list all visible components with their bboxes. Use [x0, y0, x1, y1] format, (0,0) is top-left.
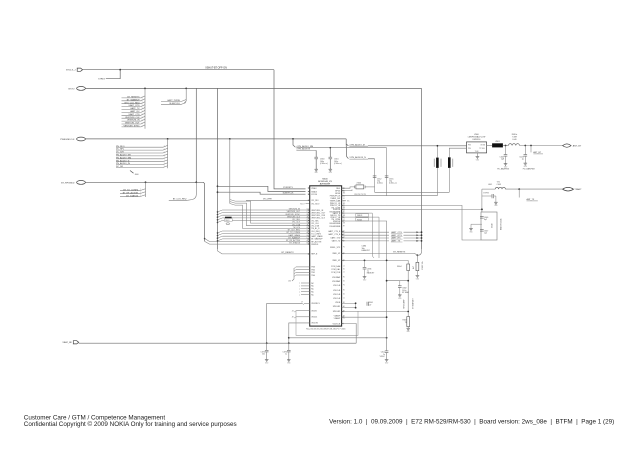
- svg-text:TM0: TM0: [311, 275, 315, 277]
- wire row3 corner down: [346, 139, 348, 146]
- svg-text:(C60x+x): (C60x+x): [389, 183, 397, 185]
- svg-text:XTRIG: XTRIG: [98, 78, 105, 80]
- svg-text:2: 2: [142, 117, 143, 119]
- inductor L641: [488, 182, 505, 190]
- capacitor C660: [314, 157, 328, 165]
- wire balun lineB: [342, 208, 481, 210]
- arrow J600 under stack: [130, 171, 139, 176]
- net label 4 PN_AUDIO_M: [349, 143, 368, 146]
- junction xmik cap: [364, 260, 366, 262]
- wire BT_RESETX row: [218, 249, 310, 254]
- capacitor C680 labels: [362, 246, 371, 252]
- wire staircase nets: [230, 200, 310, 229]
- crystal X600 (box): [356, 182, 364, 189]
- connector pin BTCLK_J (pentagon): [66, 68, 82, 72]
- junction c661: [330, 147, 332, 149]
- wire L640 right: [520, 145, 563, 147]
- wire Z600 pin2 left: [449, 148, 466, 157]
- wire row3 corner fan2: [346, 144, 348, 159]
- junction balun lineB: [481, 209, 483, 211]
- svg-text:L641: L641: [488, 184, 492, 186]
- wire XTRIG stub: [106, 70, 120, 79]
- ground C644: [494, 202, 498, 207]
- boxed label RXD5B: [356, 218, 369, 222]
- svg-text:DC_DR: DC_DR: [116, 166, 124, 168]
- net label 3 PN_AUDIOK_N: [349, 156, 368, 159]
- svg-text:(C60x): (C60x): [377, 183, 383, 185]
- wire VIC_RFE row: [246, 199, 310, 201]
- wire TXANT left vertical: [481, 189, 483, 209]
- svg-text:XMIK_4P: XMIK_4P: [332, 260, 341, 262]
- pin NC57 stub: [300, 203, 310, 205]
- wire row2 drop x421 (to BT section): [421, 88, 423, 249]
- wire X600 right: [365, 186, 375, 188]
- svg-text:RF_ACTIVE: RF_ACTIVE: [311, 240, 322, 243]
- filter B600 (black): [225, 217, 232, 218]
- wire VDD rail y337.8: [289, 337, 387, 339]
- svg-text:2: 2: [164, 146, 165, 148]
- resistor R602: [413, 255, 424, 270]
- wire L641 right: [505, 188, 562, 190]
- svg-text:M8: M8: [343, 215, 345, 217]
- svg-text:R602 10k: R602 10k: [422, 261, 424, 269]
- svg-text:D1: D1: [343, 294, 345, 296]
- pins NC stubs: [299, 283, 310, 297]
- junction txant: [518, 188, 520, 190]
- svg-text:BT EAR: BT EAR: [402, 291, 409, 294]
- svg-text:M5: M5: [343, 203, 345, 205]
- svg-text:VDDRAW: VDDRAW: [332, 276, 340, 279]
- bus collector row2 stack: [144, 88, 146, 128]
- filter Z600 (box): [467, 142, 487, 153]
- capacitor C641: [519, 146, 527, 164]
- capacitor C670: [282, 343, 290, 360]
- svg-text:SLEEPCLK: SLEEPCLK: [283, 193, 294, 195]
- wire TXANT row: [482, 188, 495, 190]
- svg-text:X640: X640: [492, 224, 494, 228]
- svg-text:VDDB: VDDB: [335, 302, 341, 304]
- svg-text:TP 3GL: TP 3GL: [479, 148, 485, 150]
- svg-text:2: 2: [140, 192, 141, 194]
- capacitor C644: [482, 194, 496, 202]
- rotated label SPKOUT: [412, 297, 415, 308]
- svg-text:BT_WAKEUP: BT_WAKEUP: [311, 238, 323, 241]
- wire cap282 lead: [399, 281, 401, 286]
- footer line1: [24, 415, 166, 422]
- svg-text:UART_WAKE: UART_WAKE: [288, 234, 300, 237]
- wire x293 drop: [293, 139, 295, 147]
- svg-text:UART_WAKE: UART_WAKE: [311, 235, 323, 238]
- svg-text:L1: L1: [343, 266, 345, 268]
- bus collector row4 stack: [145, 182, 147, 197]
- svg-text:3 PN_AUDIOK_N: 3 PN_AUDIOK_N: [349, 156, 366, 159]
- svg-text:4 PN_AUDIO_NM: 4 PN_AUDIO_NM: [296, 145, 313, 148]
- svg-text:SPKGN2: SPKGN2: [333, 311, 340, 313]
- svg-text:2: 2: [164, 157, 165, 159]
- bus collector uart-pwre: [184, 88, 186, 103]
- Z600 labels: [468, 134, 486, 141]
- svg-text:1p8: 1p8: [501, 159, 504, 161]
- svg-text:10n: 10n: [262, 354, 265, 356]
- svg-text:2: 2: [142, 108, 143, 110]
- ground R602: [416, 275, 420, 280]
- bus collector row3 stack: [167, 139, 169, 168]
- wire audio net2 to xtal area: [368, 159, 449, 193]
- svg-text:BT_TX_CONF4: BT_TX_CONF4: [123, 189, 139, 191]
- wire audio net to Z600: [368, 145, 467, 147]
- wire c661 gnd lead: [329, 159, 331, 169]
- svg-text:TM2: TM2: [311, 269, 315, 271]
- ground X640: [469, 229, 473, 234]
- svg-text:REF_N: REF_N: [311, 254, 318, 256]
- wire v421 curve join: [417, 249, 421, 255]
- svg-text:4k7: 4k7: [413, 266, 415, 269]
- net label SLEEPCLK at pin: [283, 193, 294, 195]
- pins TM3-TM0 with collector: [288, 267, 310, 283]
- connector BTXO (oval): [69, 87, 86, 91]
- svg-text:TM3: TM3: [311, 267, 315, 269]
- svg-text:XMIKL_STX: XMIKL_STX: [330, 247, 341, 249]
- svg-text:J1: J1: [343, 272, 345, 274]
- svg-text:VDDIO-B: VDDIO-B: [333, 323, 341, 325]
- wire row y217: [342, 217, 379, 258]
- IC N600 ref label: [318, 179, 332, 186]
- svg-text:H1: H1: [343, 277, 345, 279]
- svg-text:BT_RESETX: BT_RESETX: [127, 97, 140, 99]
- svg-text:x: x: [299, 291, 300, 293]
- svg-text:VENTURIL_SYN: VENTURIL_SYN: [311, 215, 326, 217]
- net stub ANT_TX: [519, 189, 538, 201]
- junction rail-cap: [386, 337, 388, 339]
- svg-text:2: 2: [142, 96, 143, 98]
- junction row3 x229: [229, 138, 231, 140]
- wire Z601 right: [503, 145, 509, 147]
- junction VDDON VBAT: [288, 342, 290, 344]
- svg-text:TXANT: TXANT: [574, 188, 582, 191]
- pin arrows left edge: [308, 187, 310, 255]
- svg-text:UART_CTS_B: UART_CTS_B: [328, 233, 341, 236]
- IC bottom NC note: [306, 328, 346, 330]
- pin NC stub right: [342, 201, 351, 203]
- svg-text:2: 2: [142, 111, 143, 113]
- svg-text:J8: J8: [292, 317, 294, 319]
- svg-text:VIC_DTA: VIC_DTA: [311, 225, 319, 228]
- svg-text:2: 2: [164, 154, 165, 156]
- svg-text:BTX_CLK_REQ: BTX_CLK_REQ: [125, 102, 140, 104]
- svg-text:VDDO-B: VDDO-B: [333, 290, 341, 292]
- svg-text:VIC_DTA: VIC_DTA: [292, 223, 301, 226]
- svg-text:E1: E1: [343, 290, 345, 292]
- svg-text:K1: K1: [343, 269, 345, 271]
- svg-text:2: 2: [164, 160, 165, 162]
- label TXANT: [574, 188, 582, 191]
- svg-text:LPO56: LPO56: [311, 194, 317, 196]
- svg-text:H7: H7: [343, 226, 345, 228]
- svg-text:2: 2: [142, 125, 143, 127]
- svg-text:J7: J7: [301, 302, 303, 304]
- footer line2: [24, 420, 237, 428]
- svg-text:NC57: NC57: [300, 203, 305, 205]
- svg-text:BALUN 2G45: BALUN 2G45: [500, 219, 503, 230]
- junction row3 x293: [292, 138, 294, 140]
- svg-text:STATUS: STATUS: [311, 243, 319, 246]
- wire Z600 gnd stub: [476, 153, 478, 157]
- svg-text:BT_WAKEUP: BT_WAKEUP: [288, 237, 300, 240]
- svg-text:DC_IDR: DC_IDR: [116, 152, 124, 154]
- svg-text:VENTURI_IN: VENTURI_IN: [127, 120, 140, 122]
- svg-text:(C60x+x): (C60x+x): [320, 163, 328, 165]
- svg-text:1p: 1p: [522, 159, 524, 161]
- ground C671: [385, 360, 389, 365]
- label stack PN_RFO..DC_DR: [116, 145, 168, 168]
- X600 sub label: [354, 194, 367, 196]
- net label SYSRSTX: [283, 187, 293, 189]
- svg-text:x: x: [299, 286, 300, 288]
- svg-text:BT/FM: BT/FM: [483, 193, 489, 195]
- svg-text:UART_TD: UART_TD: [332, 239, 341, 242]
- junction ant c: [530, 145, 532, 147]
- capacitor C642: [499, 146, 507, 164]
- svg-text:G1: G1: [343, 281, 345, 283]
- junction ant a: [505, 145, 507, 147]
- wire VDDIO tap: [292, 311, 310, 313]
- IC internal left pin names: [311, 187, 326, 325]
- wire XSHUT-BT row1 horizontal: [83, 69, 274, 71]
- svg-text:UART_TXD: UART_TXD: [330, 236, 340, 239]
- resistor R605: [402, 317, 409, 329]
- svg-text:VENTURI_SYNC: VENTURI_SYNC: [285, 214, 300, 216]
- ground C682: [398, 295, 402, 300]
- svg-text:SPK EARP: SPK EARP: [403, 299, 406, 309]
- junction a280b: [407, 280, 409, 282]
- balun L643 (bars): [448, 157, 453, 192]
- svg-text:2: 2: [142, 99, 143, 101]
- svg-text:8p2: 8p2: [484, 219, 487, 221]
- svg-text:C1: C1: [343, 298, 345, 300]
- bead oval under B600: [226, 223, 230, 225]
- svg-text:VENTURI_OUT: VENTURI_OUT: [125, 123, 140, 125]
- svg-text:1u: 1u: [285, 354, 287, 356]
- ground C670: [287, 360, 291, 365]
- svg-text:R604: R604: [397, 266, 402, 268]
- boxed label B600: [224, 219, 232, 222]
- svg-text:VDDC: VDDC: [380, 356, 386, 358]
- junction row4 bus: [145, 181, 147, 183]
- wire rows from bus into IC: [217, 210, 310, 242]
- net label 4 PN_AUDIO_NM: [296, 145, 386, 148]
- UART net labels group: [342, 231, 423, 243]
- svg-text:BT_RF_ACTIVE: BT_RF_ACTIVE: [286, 239, 301, 242]
- svg-text:VDDO-B: VDDO-B: [333, 294, 341, 296]
- svg-text:TUM: TUM: [475, 151, 479, 153]
- svg-text:2: 2: [164, 163, 165, 165]
- svg-text:L640: L640: [512, 139, 516, 141]
- capacitor C661: [329, 157, 343, 165]
- wire IC to X600 pin b: [342, 190, 352, 191]
- svg-text:M6: M6: [343, 193, 345, 195]
- connector TXANT (lens): [563, 187, 574, 191]
- svg-text:K8: K8: [343, 223, 345, 225]
- wire row318: [342, 316, 388, 318]
- svg-text:x: x: [299, 283, 300, 285]
- svg-text:BT_RESETX: BT_RESETX: [282, 252, 295, 254]
- svg-text:TM1: TM1: [311, 272, 315, 274]
- wire SLEEPCLK jog: [217, 191, 306, 194]
- wire VBAT corner up to IC: [342, 324, 357, 344]
- svg-text:Confidential Copyright © 2009: Confidential Copyright © 2009 NOKIA Only…: [24, 420, 237, 428]
- svg-text:BT_STATUS: BT_STATUS: [289, 242, 300, 245]
- junction row2 bus1: [144, 88, 146, 90]
- svg-text:XMIK_4P: XMIK_4P: [332, 253, 341, 255]
- IC pin numbers right edge: [343, 188, 345, 320]
- ground C686: [363, 277, 367, 282]
- svg-text:x: x: [299, 289, 300, 291]
- junction row2 bus2: [185, 88, 187, 90]
- capacitor C646: [480, 217, 488, 222]
- wire bt_clk_req hook: [187, 182, 196, 200]
- balun X640 (box): [481, 212, 497, 240]
- svg-text:R601: R601: [225, 220, 229, 222]
- pin net labels left of IC: [285, 209, 308, 245]
- svg-text:2: 2: [142, 102, 143, 104]
- svg-text:N8: N8: [343, 207, 345, 209]
- svg-text:D7: D7: [343, 240, 345, 242]
- junction row3 bus: [167, 138, 169, 140]
- label ANT_BT: [573, 145, 582, 148]
- connector VBAT_RF (pentagon): [62, 341, 78, 345]
- svg-text:C2: C2: [343, 318, 345, 320]
- svg-text:SYSRSTX: SYSRSTX: [283, 187, 293, 189]
- svg-text:VDD25: VDD25: [311, 317, 317, 319]
- wire XTALB jog: [217, 185, 306, 191]
- junction xmik v386: [386, 260, 388, 262]
- wire IC to X600 pin a: [342, 187, 355, 188]
- svg-text:VIC_SUO: VIC_SUO: [311, 204, 320, 206]
- svg-text:Version: 1.0 | 09.09.2009 |: Version: 1.0 | 09.09.2009 | E72 RM-529/R…: [329, 418, 614, 425]
- wire row4 corner down x205: [203, 182, 204, 241]
- junction VDDON wireB: [288, 337, 290, 339]
- svg-text:2: 2: [142, 105, 143, 107]
- junction row4 v196: [195, 181, 197, 183]
- svg-text:HEADINT: HEADINT: [362, 249, 371, 252]
- label BT/FM balun: [483, 193, 489, 195]
- label UART_PWRE: [161, 99, 186, 102]
- svg-text:ANT_BT: ANT_BT: [573, 145, 582, 148]
- svg-text:TX1: TX1: [497, 182, 500, 184]
- svg-text:J3: J3: [292, 311, 294, 313]
- rotated label EARNDET: [403, 299, 406, 309]
- wire balun lineA: [342, 205, 481, 240]
- ground C642: [497, 164, 510, 171]
- svg-text:PN_RFO: PN_RFO: [116, 146, 125, 148]
- wire VDD25 tap: [292, 317, 310, 319]
- ground R605: [406, 328, 410, 333]
- svg-text:1p5: 1p5: [484, 232, 487, 234]
- svg-text:J6: J6: [343, 198, 345, 200]
- svg-text:2: 2: [140, 195, 141, 197]
- svg-text:XTALF: XTALF: [311, 187, 317, 190]
- svg-text:BT EARDET: BT EARDET: [412, 297, 415, 308]
- wire row3 horizontal: [85, 138, 346, 140]
- svg-text:VDAMP: VDAMP: [334, 317, 341, 320]
- label SLEEPCLK: [161, 103, 186, 105]
- net label BT_RESETX left: [282, 252, 295, 254]
- svg-text:2: 2: [142, 114, 143, 116]
- wire c660 lead: [315, 150, 317, 157]
- wire v204 tap1: [205, 239, 310, 242]
- wire VDDRFCL pin: [267, 302, 310, 344]
- capacitor C671 on rail: [380, 338, 389, 360]
- svg-text:VENTURI_CLK: VENTURI_CLK: [125, 117, 140, 119]
- svg-text:VIC_RIO: VIC_RIO: [311, 200, 319, 202]
- svg-text:L7: L7: [343, 219, 345, 221]
- wire audio h280: [387, 280, 409, 282]
- junction ant b: [524, 145, 526, 147]
- net label BT_CLK_REQ: [169, 199, 188, 201]
- wire v196 row2->row4: [195, 88, 197, 182]
- svg-text:DC_RFL: DC_RFL: [116, 149, 125, 151]
- IC N600 BCM2048 (box): [310, 186, 342, 326]
- svg-text:2: 2: [142, 120, 143, 122]
- svg-text:XTALB: XTALB: [311, 190, 317, 193]
- capacitor C652 on v374: [373, 176, 383, 185]
- wire XSHUT vertical drop: [274, 70, 306, 189]
- ground c660: [314, 169, 318, 174]
- wire c660 gnd lead: [315, 159, 317, 169]
- pin arrows right edge: [342, 187, 344, 324]
- wire VBAT long: [79, 342, 357, 344]
- label stack BT_TX_CONF4..BT_STATUS: [120, 189, 146, 198]
- connector PWRGNDCLK (oval): [60, 137, 85, 141]
- svg-text:3TUM: 3TUM: [480, 144, 485, 146]
- junction balun top: [481, 209, 483, 211]
- svg-text:C643: C643: [497, 184, 502, 186]
- svg-text:Z601: Z601: [495, 141, 499, 143]
- connector ANT_BT (lens): [563, 144, 572, 147]
- boxed label DBUS: [356, 214, 369, 218]
- svg-text:VENTURI_SYNC: VENTURI_SYNC: [123, 126, 140, 128]
- wire R602 gnd: [416, 271, 418, 276]
- svg-text:AVENGER: AVENGER: [320, 183, 331, 186]
- wire v386 xtal cap: [386, 148, 388, 196]
- svg-text:PWRGNDCLK: PWRGNDCLK: [60, 139, 75, 141]
- wire VDDON pin: [289, 323, 310, 343]
- connector BT_RFGNDD (oval): [61, 181, 85, 185]
- svg-text:J35: J35: [288, 281, 291, 283]
- junction v204 tap1: [204, 238, 206, 240]
- resistor R604: [397, 260, 410, 316]
- svg-text:2: 2: [164, 166, 165, 168]
- capacitor C686: [363, 260, 376, 276]
- svg-text:BGGNDSNB: BGGNDSNB: [330, 223, 341, 225]
- capacitor C647: [480, 230, 488, 235]
- svg-text:x: x: [299, 294, 300, 296]
- svg-text:VBAT_RF: VBAT_RF: [62, 341, 72, 344]
- wire row y221: [342, 221, 387, 338]
- wire row y213: [342, 213, 374, 258]
- net label BT_RESETX right: [393, 252, 406, 254]
- svg-text:KMX516: KMX516: [473, 139, 482, 141]
- rotated label X640: [492, 219, 503, 230]
- balun L642 (bars): [434, 146, 441, 196]
- svg-text:VDDRFCL: VDDRFCL: [311, 303, 320, 305]
- junction BT_RESETX pulldown: [417, 254, 419, 256]
- footer right: [329, 418, 614, 425]
- IC internal right pin names: [328, 188, 341, 325]
- wire v204 tap2: [205, 241, 310, 244]
- wire RF row y195.7: [342, 195, 438, 197]
- ground c661: [329, 169, 333, 174]
